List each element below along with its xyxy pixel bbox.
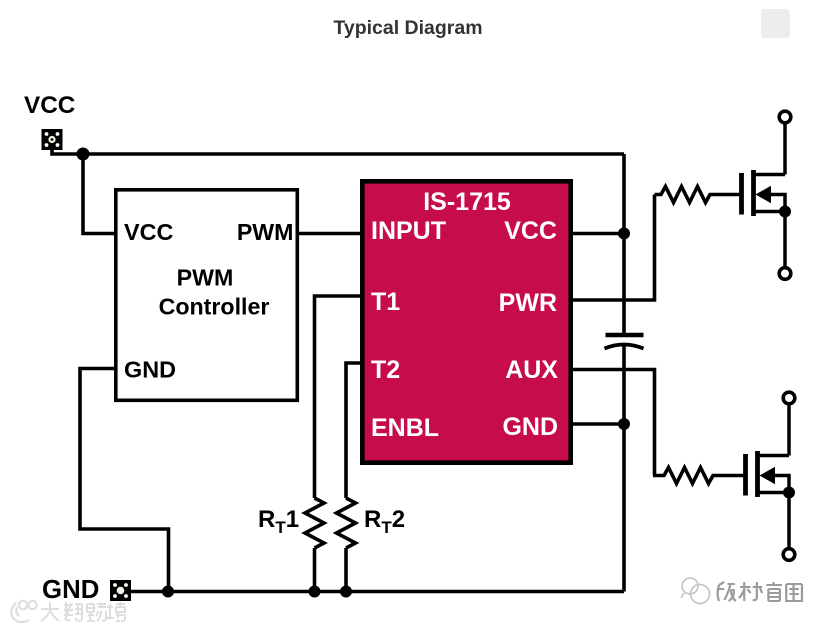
drain terminal circle (779, 111, 791, 123)
drain stub (754, 173, 786, 177)
wire IC VCC pin to rail (573, 232, 624, 236)
resistor gate Q2 (653, 468, 744, 484)
channel bar (751, 170, 756, 216)
node VCC junction (77, 148, 90, 161)
node RT2 rail (340, 586, 352, 598)
drain wire (783, 123, 787, 175)
svg-text:Controller: Controller (159, 294, 270, 320)
terminal VCC (42, 129, 63, 150)
wire VCC top rail (52, 148, 624, 154)
wire T2 to RT2 (346, 363, 362, 498)
source wire (787, 493, 791, 550)
source stub (754, 210, 786, 214)
node RT1 rail (309, 586, 321, 598)
wire PWM output to INPUT (297, 232, 360, 236)
top-right corner icon (761, 9, 790, 38)
channel bar (755, 451, 760, 497)
svg-text:T1: T1 (371, 288, 400, 316)
svg-text:PWM: PWM (237, 219, 294, 245)
svg-text:VCC: VCC (504, 217, 557, 245)
body arrow (760, 467, 776, 484)
drain stub (758, 454, 790, 458)
svg-text:T2: T2 (371, 356, 400, 384)
watermark logo bottom-left (11, 601, 37, 622)
source terminal circle (779, 268, 791, 280)
svg-text:Typical Diagram: Typical Diagram (333, 17, 482, 39)
wire VCC rail down to capacitor (622, 154, 626, 334)
ground rail (131, 590, 624, 594)
body arrow (756, 186, 772, 203)
source stub (758, 491, 790, 495)
resistor RT1 (305, 498, 324, 548)
box PWM Controller (116, 190, 297, 400)
node VCC pin junction (618, 228, 630, 240)
wire RT2 to ground rail (344, 548, 348, 592)
capacitor C1 (605, 335, 644, 349)
terminal GND (110, 580, 131, 601)
drain wire (787, 404, 791, 456)
svg-text:GND: GND (124, 357, 176, 383)
IC U1 IS-1715 (362, 181, 570, 462)
resistor gate Q1 (655, 187, 740, 203)
drain terminal circle (783, 392, 795, 404)
wire capacitor to ground rail (622, 346, 626, 592)
wire PWR to gate resistor 1 (573, 195, 655, 301)
gate bar (739, 173, 744, 215)
wire AUX to gate resistor 2 (573, 370, 655, 476)
svg-text:PWR: PWR (499, 289, 557, 317)
wire RT1 to ground rail (313, 548, 317, 592)
svg-text:ENBL: ENBL (371, 414, 439, 442)
svg-text:INPUT: INPUT (371, 217, 446, 245)
source wire (783, 212, 787, 269)
transistor Q1 (NMOS) (742, 111, 792, 279)
resistor RT2 (337, 498, 356, 548)
wire T1 to RT1 (315, 296, 363, 498)
watermark text bottom-right "hang cai shang cheng" (717, 582, 802, 601)
svg-text:GND: GND (42, 576, 99, 604)
watermark text bottom-left "da shu kua jing" (41, 602, 125, 621)
source terminal circle (783, 549, 795, 561)
svg-text:IS-1715: IS-1715 (423, 188, 511, 216)
node GND pin junction (618, 418, 630, 430)
gate bar (743, 454, 748, 496)
svg-text:VCC: VCC (124, 219, 173, 245)
node source junction (779, 206, 791, 218)
svg-text:GND: GND (502, 413, 558, 441)
wire PWM controller GND to ground rail (80, 369, 169, 592)
node source junction (783, 487, 795, 499)
svg-text:VCC: VCC (24, 92, 75, 119)
wire VCC drop to PWM controller (83, 154, 114, 234)
watermark logo bottom-right (681, 578, 710, 604)
wire IC GND pin to rail (573, 422, 624, 426)
svg-text:AUX: AUX (505, 356, 558, 384)
node rail left (162, 586, 174, 598)
svg-text:PWM: PWM (177, 265, 234, 291)
transistor Q2 (NMOS) (746, 392, 796, 560)
